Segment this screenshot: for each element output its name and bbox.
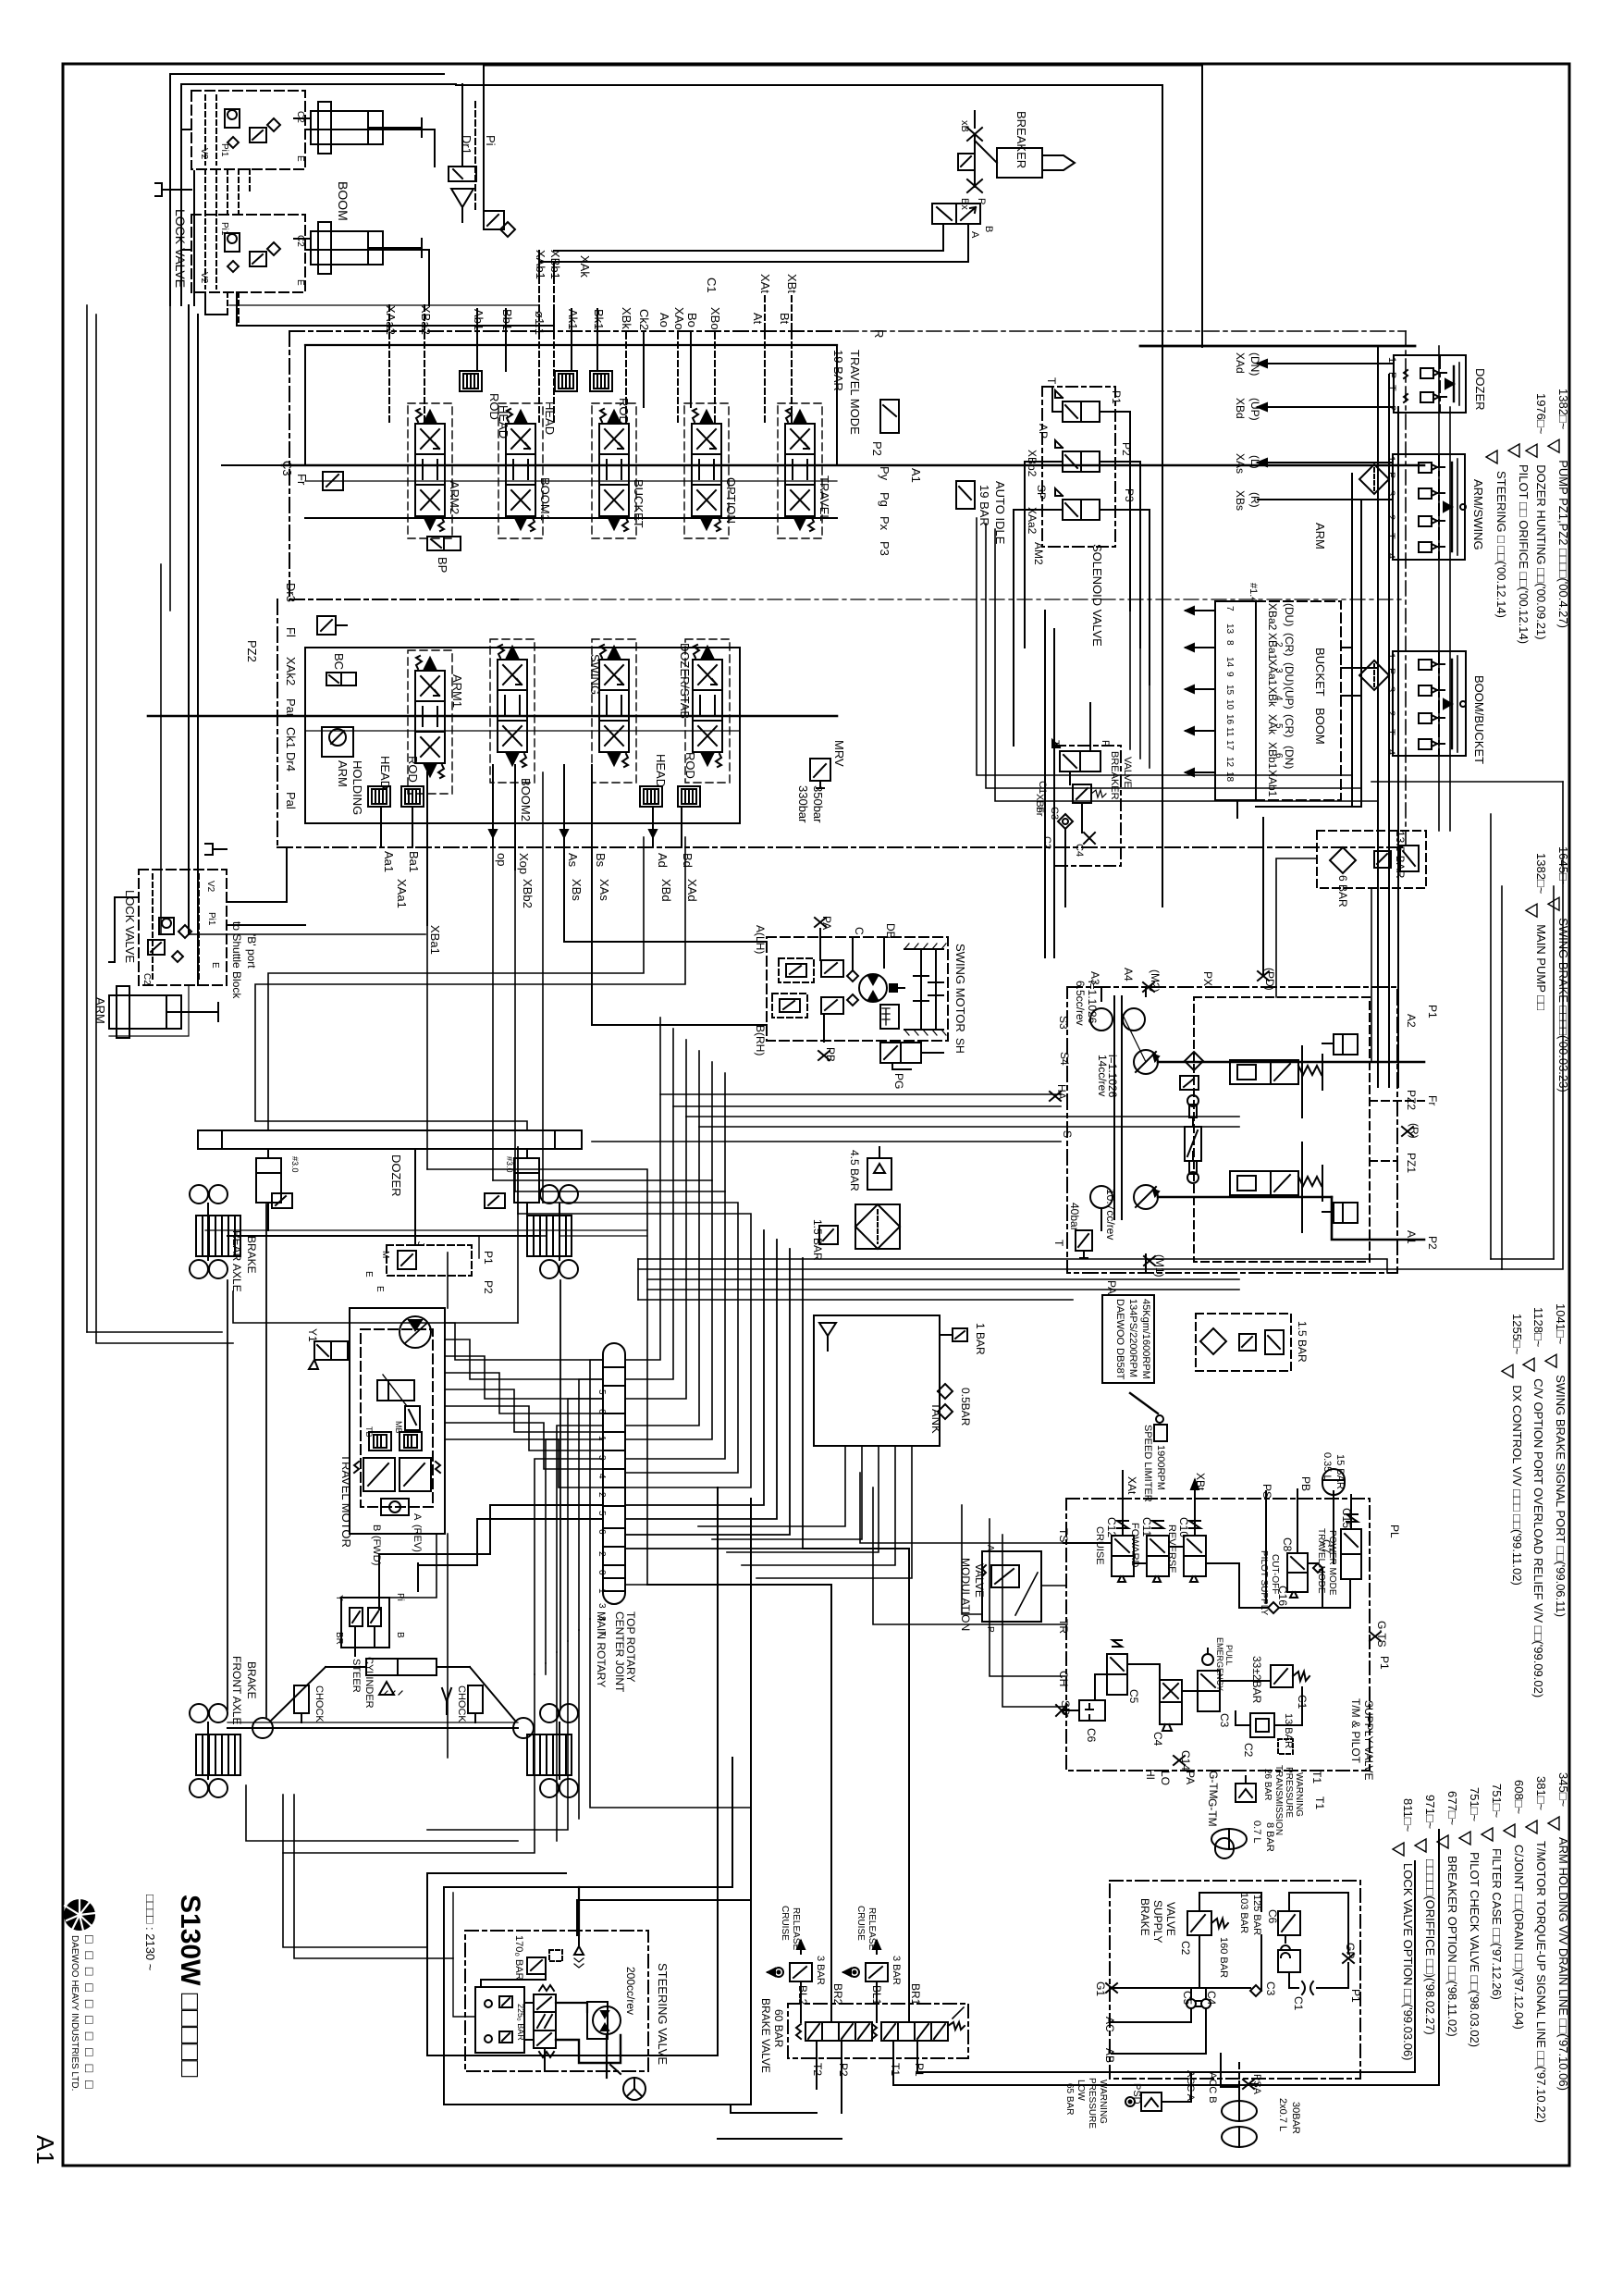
engine box DAEWOO DB58T [1102,1295,1154,1383]
breaker line [974,134,976,187]
manifold internal connections [1064,1489,1351,1725]
svg-text:AP: AP [1037,424,1050,438]
svg-text:TR: TR [1057,1619,1070,1634]
dozer cylinder feeds [255,837,685,1130]
lower lock valve internals [199,219,305,289]
svg-text:C11: C11 [1140,1517,1153,1537]
svg-text:C4: C4 [1151,1732,1164,1747]
svg-text:AM2: AM2 [1032,542,1045,565]
svg-text:XBt: XBt [785,274,799,293]
svg-text:XBo: XBo [708,307,722,330]
svg-text:CRUISE: CRUISE [780,1906,790,1941]
svg-text:Ck1: Ck1 [284,727,298,748]
svg-text:STEERING VALVE: STEERING VALVE [656,1963,670,2065]
main gallery line P2 [148,715,837,718]
svg-text:G1: G1 [1094,1981,1107,1996]
boom cylinder lower [294,222,422,274]
svg-text:Ab1: Ab1 [472,309,486,330]
port labels around manifold [1057,1476,1401,1799]
FRONT AXLE BRAKE label [230,1656,258,1724]
solenoid valve 2 [1055,440,1100,472]
svg-text:SPEED LIMITER: SPEED LIMITER [1142,1425,1153,1502]
svg-text:T: T [1385,729,1396,735]
svg-text:CH: CH [1057,1671,1070,1686]
svg-text:REAR AXLE: REAR AXLE [230,1230,243,1292]
breaker valve connections [1065,703,1090,907]
valve section ARM2 [415,409,461,531]
svg-text:STEERING □ □□('00.12.14): STEERING □ □□('00.12.14) [1494,471,1508,618]
G1 GP C3 C1 nodes [1094,1943,1362,2063]
svg-text:ARM2: ARM2 [448,481,461,514]
C5 C4 couplers [1181,1991,1218,2008]
svg-text:DOZER HUNTING □□('00.09.21): DOZER HUNTING □□('00.09.21) [1534,464,1548,639]
RCV DOZER box [1394,355,1487,413]
svg-text:C2: C2 [1041,836,1052,849]
gerotor [587,1967,637,2039]
svg-text:Fr: Fr [1034,807,1045,817]
svg-text:(DU): (DU) [1283,662,1296,685]
pilot filter + relief in pump [1180,1052,1203,1090]
svg-text:XBb1: XBb1 [548,250,562,279]
svg-text:(REV): (REV) [412,1524,423,1552]
svg-text:VALVE: VALVE [1164,1902,1177,1936]
svg-text:A: A [985,1545,995,1551]
dashed section envelopes bank1 [408,403,822,538]
svg-text:P3: P3 [878,541,891,556]
svg-text:Fl: Fl [284,627,298,637]
svg-text:345□~: 345□~ [1556,1772,1570,1808]
svg-text:BC: BC [332,653,346,670]
svg-text:60 BAR: 60 BAR [772,2009,785,2048]
svg-text:608□~: 608□~ [1512,1780,1526,1815]
brake valve left spool [796,2022,877,2041]
svg-text:2: 2 [1385,514,1396,520]
svg-text:A4: A4 [1122,968,1135,981]
front axle beam [227,1722,518,1728]
svg-text:XBd: XBd [659,879,673,902]
svg-text:SD: SD [1059,1700,1072,1716]
svg-text:XBa1: XBa1 [1266,633,1279,660]
svg-text:PX: PX [1201,971,1214,986]
svg-text:HOLDING: HOLDING [350,760,364,815]
svg-text:10: 10 [1224,699,1235,710]
left nested ladder travel->rotary [389,1253,603,1758]
svg-text:E: E [295,155,305,162]
breaker valve solenoid valve [1050,740,1111,772]
svg-text:TB: TB [364,1426,374,1438]
svg-text:MODULATION: MODULATION [959,1558,972,1631]
regulator 1 [1230,1034,1358,1090]
svg-text:(FWD): (FWD) [371,1536,382,1565]
ACC A / ACC B labels [1185,2070,1262,2104]
svg-text:3 BAR: 3 BAR [891,1956,902,1985]
svg-text:C: C [853,927,866,935]
svg-text:P1: P1 [1110,390,1123,404]
svg-text:45Kgm/1600RPM: 45Kgm/1600RPM [1140,1299,1151,1379]
svg-text:BR2: BR2 [831,1983,844,2006]
MCV assembly dash-dot right boundary [843,331,1406,847]
svg-text:1645□~: 1645□~ [1556,846,1570,888]
svg-text:PB: PB [1299,1476,1312,1491]
svg-text:C2: C2 [1179,1941,1192,1956]
rear wheels right pairs [540,1185,578,1204]
lock2 wires [109,847,305,1036]
tie rods [271,1667,515,1721]
svg-text:170₀ BAR: 170₀ BAR [513,1935,524,1981]
svg-text:3: 3 [1385,490,1396,496]
wires lock valve to MCV [189,130,554,934]
C2 13BAR valve [1242,1713,1294,1758]
svg-text:DOZER: DOZER [1473,368,1487,411]
svg-text:At: At [751,313,765,325]
svg-text:XBs: XBs [570,879,584,901]
svg-text:MAIN ROTARY: MAIN ROTARY [595,1611,608,1687]
svg-text:BRAKE: BRAKE [245,1236,258,1274]
return filter diamond [855,1204,900,1249]
svg-text:TRAVEL: TRAVEL [818,475,831,522]
solenoid valve 3 [1055,488,1100,520]
svg-text:XAa1: XAa1 [395,879,409,908]
RCV BOOM/BUCKET joystick + units [1419,656,1466,752]
long pilot verticals from solenoid block to pump [1014,592,1263,975]
travel pilot lines to rotary [860,1473,1066,1707]
3 BAR cruise valves [768,1906,826,1985]
svg-text:C3: C3 [1264,1981,1277,1996]
svg-text:Ad: Ad [656,853,670,868]
svg-text:(L): (L) [1248,455,1261,469]
svg-text:PUMP PZ1,PZ2 □□□□('00.4.27): PUMP PZ1,PZ2 □□□□('00.4.27) [1556,460,1570,628]
svg-text:C1: C1 [705,278,719,293]
svg-text:330bar: 330bar [796,785,810,823]
breaker shutoff X lower [959,179,982,210]
top long trunk wires [456,66,1202,907]
svg-text:T1: T1 [1310,1771,1323,1784]
svg-text:P: P [976,198,987,204]
svg-text:2: 2 [596,1492,607,1498]
svg-text:BREAKER OPTION □□('98.11.02): BREAKER OPTION □□('98.11.02) [1445,1856,1459,2037]
C3 line + Fr relief valve left of MCV1 [222,461,343,490]
tank bottom outlets [698,1447,912,1578]
svg-text:Bd: Bd [681,853,695,868]
svg-text:E: E [210,962,220,969]
main pump P2 (lower) [1090,1185,1159,1209]
svg-text:XBk: XBk [620,307,633,329]
return bundle rows to right [592,1142,1502,1300]
svg-text:C2: C2 [295,235,305,247]
rear brake feed [233,1147,518,1323]
load check valve 560 HEAD [543,371,577,435]
svg-text:4: 4 [1385,749,1396,755]
svg-text:P2: P2 [837,2063,850,2077]
svg-text:BOOM2: BOOM2 [519,778,533,821]
BRAKE VALVE dash-dot box [788,2004,968,2058]
svg-text:33±2BAR: 33±2BAR [1250,1656,1263,1704]
svg-text:SH: SH [953,1038,966,1054]
0.7L 8BAR accumulator [1211,1821,1275,1858]
svg-text:C3: C3 [280,461,294,476]
svg-text:HEAD: HEAD [654,754,668,787]
svg-text:3: 3 [1385,686,1396,692]
svg-text:19 BAR: 19 BAR [977,485,991,526]
RCV ARM/SWING box [1393,454,1485,560]
svg-text:XAd: XAd [1234,352,1247,374]
svg-text:VALVE: VALVE [1122,757,1133,788]
RCV ARM/SWING port labels [1385,456,1396,559]
svg-text:TRAVEL MODE: TRAVEL MODE [1316,1528,1326,1594]
svg-text:30BAR: 30BAR [1290,2102,1301,2134]
breaker hammer [997,111,1075,178]
SOLENOID VALVE block dashed box [1042,387,1115,647]
svg-text:0.35 L: 0.35 L [1322,1452,1333,1481]
svg-text:XAk: XAk [578,255,592,278]
swing labels [754,916,967,1089]
svg-text:C/JOINT □□(DRAIN □□)('97.12.04: C/JOINT □□(DRAIN □□)('97.12.04) [1512,1845,1526,2030]
breaker valve labels [1034,751,1133,857]
right margin return loop [1371,782,1563,1269]
supply trunk to RCVs [1140,346,1415,1087]
C6 orifice block [1056,1700,1105,1743]
svg-text:381□~: 381□~ [1534,1776,1548,1811]
dozer cylinder right [485,1149,539,1208]
svg-text:STEER: STEER [350,1659,362,1693]
svg-text:134PS/2200RPM: 134PS/2200RPM [1127,1299,1138,1377]
svg-text:8 BAR: 8 BAR [1264,1822,1275,1852]
svg-text:J: J [415,1241,425,1246]
pilot bundle from MCV2 to center joint (verticals) [427,772,1239,1585]
svg-text:ARM HOLDING V/V DRAIN LINE □□(: ARM HOLDING V/V DRAIN LINE □□('97.10.06) [1556,1837,1570,2091]
regulator 2 [1230,1166,1358,1223]
manifold port numbers [1224,606,1284,783]
svg-text:Bs: Bs [594,853,608,868]
MODULATION VALVE [959,1545,1041,1633]
breaker shutoff X upper [959,120,982,141]
svg-text:0: 0 [596,1570,607,1575]
svg-text:WARNING: WARNING [1294,1772,1304,1817]
manifold left pick lines with arrows [1186,607,1215,776]
svg-text:Px: Px [878,516,891,531]
MCV2 assembly dash-dot boundary bottom [277,599,1406,847]
RCV DOZER pedal + units [1404,363,1459,405]
svg-text:xB: xB [959,120,970,132]
svg-text:HI: HI [1144,1769,1157,1780]
anti-cavitation checks [847,970,858,981]
19 BAR AUTO IDLE valve [956,481,1007,545]
svg-text:7: 7 [1224,606,1235,611]
C6 accumulator charge valve [1266,1909,1300,1972]
axle interconnect verticals [227,1204,560,1717]
svg-text:V2: V2 [205,881,215,893]
pump assembly dash-dot box [1067,987,1397,1273]
rotary labels [595,1611,637,1693]
svg-text:A1: A1 [31,2135,59,2165]
drive shaft [1114,996,1146,1219]
svg-text:T/M & PILOT: T/M & PILOT [1349,1698,1362,1764]
svg-text:C12: C12 [1105,1517,1118,1537]
svg-text:2: 2 [596,1551,607,1557]
travel motor outer solid box [350,1308,445,1534]
lock valve lower dashed box [191,215,305,292]
svg-text:Fr: Fr [1426,1095,1439,1105]
svg-text:C1: C1 [1037,781,1048,794]
1.5 BAR relief [811,1219,838,1261]
svg-text:ARM: ARM [1313,523,1327,549]
svg-text:XAa1: XAa1 [1266,659,1279,686]
svg-text:225₀ BAR: 225₀ BAR [516,2004,525,2041]
load check 560 ROD (left) [401,756,424,807]
svg-text:MRV: MRV [832,740,846,767]
svg-text:i=1.1026: i=1.1026 [1106,1055,1119,1098]
svg-text:Ak1: Ak1 [566,309,580,329]
svg-text:SWING: SWING [588,654,602,695]
extra pilot drop lines from lock valves [205,169,250,326]
svg-text:T: T [1386,385,1397,391]
svg-text:ARM: ARM [93,997,107,1024]
svg-text:BR: BR [334,1632,344,1645]
svg-text:S: S [1061,1130,1074,1138]
svg-text:SUPPLY VALVE: SUPPLY VALVE [1362,1700,1375,1781]
valve section SWING [588,645,629,767]
svg-text:Pal: Pal [284,792,298,809]
bottom port labels MCV2 [382,851,699,955]
svg-text:A: A [412,1513,423,1521]
svg-text:LO: LO [1159,1771,1172,1785]
svg-text:C4: C4 [1074,844,1085,857]
svg-text:BOOM: BOOM [336,181,350,221]
svg-text:XAs: XAs [597,879,611,901]
svg-text:TS: TS [1057,1528,1070,1542]
C8 PILOT SUPPLY CUT-OFF [1259,1537,1308,1616]
MCV1 inner gallery box [305,345,837,465]
gallery line lower [305,517,837,519]
FWD/REV labels [371,1513,423,1565]
pump labels [1055,968,1439,1294]
svg-text:i=1.1026: i=1.1026 [1086,981,1099,1024]
svg-text:5: 5 [596,1389,607,1395]
svg-text:Bo: Bo [685,313,699,327]
svg-text:CRUISE: CRUISE [1094,1526,1105,1565]
svg-text:C10: C10 [1177,1517,1190,1537]
svg-text:1 BAR: 1 BAR [974,1323,987,1355]
svg-text:1900RPM: 1900RPM [1155,1445,1166,1490]
breaker valve check [1058,814,1095,844]
svg-text:C2: C2 [1242,1743,1255,1758]
svg-text:A: A [969,231,980,239]
MCV1 assembly dash-dot boundary [289,331,843,599]
svg-text:19 BAR: 19 BAR [831,350,845,391]
svg-text:Ck2: Ck2 [637,309,651,330]
swing block dashed box [767,937,948,1041]
svg-text:811□~: 811□~ [1401,1798,1415,1833]
svg-text:XBd: XBd [1234,398,1247,419]
svg-text:XAk2: XAk2 [284,657,298,685]
port labels MCV1 top [384,250,799,335]
svg-text:(UP): (UP) [1283,686,1296,710]
svg-text:C2: C2 [295,111,305,123]
svg-text:6 BAR: 6 BAR [1336,875,1349,907]
RCV BOOM/BUCKET box [1393,651,1486,764]
svg-text:BRAKE VALVE: BRAKE VALVE [759,1998,772,2073]
ARM HOLDING valve [322,727,364,815]
svg-text:3 BAR: 3 BAR [815,1956,826,1985]
manifold pilot labels [1266,603,1296,797]
XAt / XBt pilot outputs [1123,1471,1207,1536]
svg-text:#3.0: #3.0 [290,1156,300,1173]
svg-text:SP: SP [1035,485,1048,500]
svg-text:P2: P2 [482,1280,495,1294]
svg-text:16: 16 [1224,714,1235,725]
C15 TRAVEL/POWER MODE [1316,1508,1361,1596]
svg-text:2: 2 [1385,710,1396,716]
RCV BOOM/BUCKET port labels [1385,653,1396,755]
svg-text:Pi1: Pi1 [219,222,229,236]
front wheels right pairs [540,1704,578,1722]
svg-text:26 BAR: 26 BAR [1262,1769,1273,1800]
svg-text:DB: DB [884,923,897,939]
svg-text:1976□~: 1976□~ [1534,393,1548,435]
BP pilot valve [427,537,461,573]
svg-text:(R): (R) [1248,492,1261,508]
svg-text:P: P [985,1626,995,1633]
svg-text:AB: AB [1103,2048,1116,2063]
svg-text:1041□~: 1041□~ [1554,1303,1568,1345]
brake supply dash-dot box [1110,1881,1360,2079]
solenoid outputs to RCV supply [1014,387,1150,685]
svg-text:Par: Par [284,698,298,718]
svg-text:P2: P2 [870,441,884,456]
svg-text:XAo: XAo [672,307,686,330]
load check 560 HEAD (left) [368,756,392,807]
svg-text:op: op [495,853,509,866]
svg-text:15 BAR: 15 BAR [1334,1454,1346,1489]
svg-text:C3: C3 [1218,1713,1231,1728]
steering dash-dot box [465,1931,648,2071]
svg-text:MAIN PUMP □□: MAIN PUMP □□ [1534,924,1548,1010]
MCV2 inner gallery box [305,648,740,823]
Daewoo logo [64,1899,95,1931]
lock valve left wires to frame lines [170,130,191,250]
BRAKE SUPPLY VALVE label [1138,1898,1177,1943]
svg-text:(CR): (CR) [1283,633,1296,656]
svg-text:15: 15 [1224,685,1235,696]
valve section BUCKET [599,409,646,531]
svg-text:13.5 BAR: 13.5 BAR [1394,831,1407,879]
counterbalance valves [354,1458,440,1515]
svg-text:XAd: XAd [685,879,699,902]
svg-text:T1: T1 [889,2063,902,2076]
svg-text:C6: C6 [1085,1728,1098,1743]
front wheels left pairs [190,1704,227,1722]
filter to BOOM/BUCKET P [1359,660,1389,690]
svg-text:VALVE: VALVE [973,1563,986,1598]
svg-text:11: 11 [1224,727,1235,737]
svg-text:Dr4: Dr4 [284,752,298,772]
steering routing loops [427,1487,751,2105]
svg-text:(DN): (DN) [1248,352,1261,376]
svg-text:E: E [363,1271,374,1278]
svg-text:T: T [1052,1240,1065,1247]
down arrows at bottom ports [489,830,657,837]
svg-text:PL: PL [1388,1524,1401,1538]
main gallery line P [282,464,1424,467]
pump inner dashed box [1194,997,1370,1262]
solenoid block port labels [1026,377,1136,565]
svg-text:1.5 BAR: 1.5 BAR [1296,1321,1309,1363]
svg-text:XBk: XBk [1266,686,1279,708]
svg-text:0.7 L: 0.7 L [1251,1821,1262,1843]
svg-text:13: 13 [1224,623,1235,635]
svg-text:Bk1: Bk1 [592,309,606,329]
steering internal lines [453,1887,621,2078]
